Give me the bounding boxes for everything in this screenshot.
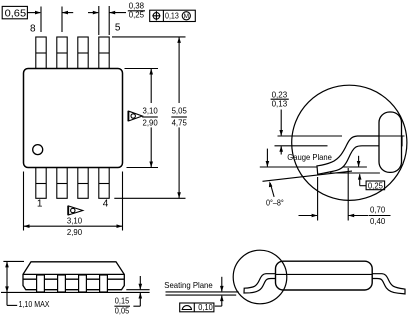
pin 1 index circle bbox=[33, 145, 43, 155]
svg-text:4,75: 4,75 bbox=[172, 117, 187, 127]
dimension 0,38/0,25 extension line pin5 left bbox=[98, 6, 100, 35]
right side view parting line bbox=[276, 273, 373, 275]
dimension 0,15/0,05 fraction bar bbox=[114, 305, 130, 307]
lead thickness extension line top bbox=[278, 135, 343, 137]
svg-text:M: M bbox=[184, 13, 189, 20]
side view body bottom extension line bbox=[126, 289, 149, 291]
top view pin 2 lead bbox=[57, 168, 67, 199]
side view lead 1 bbox=[37, 275, 45, 292]
side view body outline bbox=[23, 262, 124, 290]
top view pin 1 lead bbox=[36, 168, 46, 199]
detail body blob bbox=[379, 112, 402, 172]
top view pin 6 lead bbox=[78, 37, 88, 69]
seating plane tolerance zone double line bbox=[166, 292, 239, 295]
dimension 0,65 right arrow bbox=[62, 11, 73, 15]
dimension 3,10/2,90 vertical: fraction bar bbox=[142, 116, 158, 118]
angle dimension arrows and leader bbox=[266, 149, 275, 197]
right side view right lead bbox=[371, 274, 405, 294]
side view lead 4 bbox=[100, 275, 108, 292]
svg-text:2,90: 2,90 bbox=[67, 227, 82, 237]
dimension 0,15/0,05 arrows bbox=[133, 276, 142, 306]
dimension 3,10/2,90 vertical: down arrow bbox=[149, 127, 153, 167]
svg-text:0,65: 0,65 bbox=[5, 8, 27, 20]
svg-text:0,40: 0,40 bbox=[370, 216, 385, 226]
svg-text:0,10: 0,10 bbox=[198, 302, 213, 312]
right side view left lead bbox=[244, 274, 277, 293]
extension line body bottom right bbox=[127, 167, 159, 169]
svg-text:4: 4 bbox=[103, 198, 109, 209]
flatness feature control frame 0,10 bbox=[180, 303, 214, 312]
dimension 0,25 gauge plane to seating plane bbox=[357, 156, 385, 190]
svg-text:0,25: 0,25 bbox=[129, 10, 145, 20]
note flag beside 3,10/2,90 bbox=[128, 111, 142, 122]
extension line bottom pin tips bbox=[114, 197, 185, 199]
svg-text:Gauge Plane: Gauge Plane bbox=[287, 152, 332, 162]
svg-text:0°–8°: 0°–8° bbox=[266, 198, 284, 208]
svg-text:0,05: 0,05 bbox=[115, 306, 130, 316]
dimension 0,70/0,40 extension lines bbox=[318, 168, 349, 221]
svg-text:1,10 MAX: 1,10 MAX bbox=[19, 299, 50, 309]
sloped foot line 0-8 degrees bbox=[263, 171, 353, 181]
detail lead bent gull-wing bbox=[317, 136, 402, 174]
dimension 5,05/4,75 vertical: down arrow bbox=[177, 127, 181, 198]
svg-text:5: 5 bbox=[115, 23, 121, 34]
dimension 0,23/0,13 arrows bbox=[279, 110, 283, 155]
dimension 0,38/0,25 right arrow bbox=[109, 11, 126, 15]
fraction bar 0,70/0,40 bbox=[369, 215, 391, 217]
svg-text:0,25: 0,25 bbox=[368, 180, 383, 190]
small detail circle bbox=[233, 250, 287, 304]
side view lead 2 bbox=[58, 275, 66, 292]
top view pin 5 lead bbox=[99, 37, 109, 69]
gauge plane line bbox=[260, 166, 367, 168]
dimension 0,65 pitch boxed label bbox=[2, 6, 27, 18]
dimension 1,10 MAX extension line bbox=[3, 260, 24, 262]
svg-text:0,70: 0,70 bbox=[370, 205, 385, 215]
dimension 0,23/0,13 fraction bar bbox=[271, 98, 289, 100]
side view seating plane baseline bbox=[1, 291, 150, 293]
dimension 0,65 extension line at pin 8 center bbox=[40, 7, 42, 33]
top view pin 3 lead bbox=[78, 168, 88, 199]
dimension 0,65 leader arrow bbox=[27, 11, 41, 15]
bottom dimension 3,10/2,90 dimension line with arrows bbox=[24, 224, 123, 228]
detail circle large bbox=[292, 85, 407, 200]
dimension 0,38/0,25 fraction bar bbox=[128, 10, 145, 12]
dimension 0,38/0,25 left arrow bbox=[88, 11, 99, 15]
dimension 5,05/4,75 vertical: fraction bar bbox=[171, 116, 187, 118]
svg-text:3,10: 3,10 bbox=[143, 105, 158, 115]
svg-text:0,13: 0,13 bbox=[272, 99, 288, 109]
lead top line across body bbox=[379, 135, 405, 137]
lead thickness extension line bottom bbox=[275, 145, 328, 147]
side view lead 3 bbox=[79, 275, 87, 292]
svg-text:0,13: 0,13 bbox=[165, 10, 179, 20]
extension line body top right bbox=[125, 68, 159, 70]
dimension 1,10 MAX dimension line with arrows and leader bbox=[5, 261, 17, 305]
top view pin 8 lead bbox=[36, 37, 46, 69]
right side view body bbox=[276, 261, 373, 290]
note flag above bottom dimension bbox=[68, 206, 83, 216]
dimension 0,70/0,40 arrows bbox=[299, 214, 369, 218]
detail seating plane line bbox=[330, 172, 380, 174]
seating plane arrows bbox=[215, 277, 224, 306]
top view pin 4 lead bbox=[99, 168, 109, 199]
dimension 5,05/4,75 vertical: up arrow bbox=[177, 37, 181, 103]
svg-text:5,05: 5,05 bbox=[172, 105, 187, 115]
top view package body bbox=[24, 69, 123, 168]
top view pin 7 lead bbox=[57, 37, 67, 69]
svg-text:2,90: 2,90 bbox=[143, 117, 158, 127]
svg-text:Seating Plane: Seating Plane bbox=[164, 280, 213, 290]
dimension 0,38/0,25 extension line pin5 right bbox=[108, 6, 110, 35]
bottom dimension 3,10/2,90 extension line right bbox=[122, 172, 124, 231]
svg-text:8: 8 bbox=[30, 23, 36, 34]
dimension 0,65 extension line at pin 7 center bbox=[61, 7, 63, 33]
dimension 3,10/2,90 vertical: up arrow bbox=[149, 69, 153, 104]
feature control frame: position tolerance 0,13 M bbox=[150, 10, 196, 21]
svg-text:3,10: 3,10 bbox=[67, 216, 82, 226]
svg-text:0,15: 0,15 bbox=[115, 295, 130, 305]
extension line top pin tips bbox=[112, 36, 186, 38]
svg-text:1: 1 bbox=[37, 198, 43, 209]
bottom dimension 3,10/2,90 extension line left bbox=[23, 172, 25, 231]
